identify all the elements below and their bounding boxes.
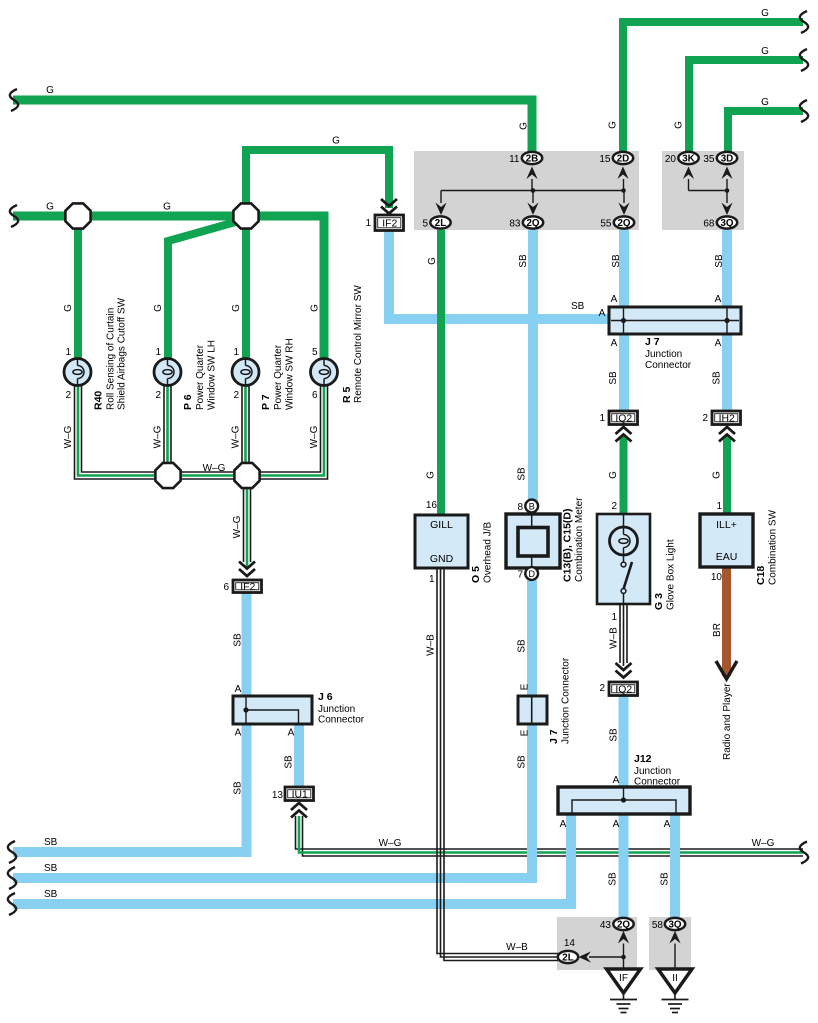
- svg-text:Junction: Junction: [645, 349, 682, 360]
- svg-text:1: 1: [233, 347, 239, 358]
- svg-text:Shield Airbags Cutoff SW: Shield Airbags Cutoff SW: [117, 297, 128, 410]
- svg-text:G: G: [332, 136, 340, 147]
- svg-text:Remote Control Mirror SW: Remote Control Mirror SW: [353, 285, 364, 403]
- svg-text:SB: SB: [712, 371, 723, 385]
- svg-text:Combination Meter: Combination Meter: [574, 497, 585, 582]
- svg-text:A: A: [613, 819, 620, 830]
- svg-text:Overhead J/B: Overhead J/B: [483, 522, 494, 583]
- svg-text:Junction: Junction: [318, 704, 355, 715]
- svg-text:B: B: [529, 502, 535, 512]
- svg-text:2: 2: [233, 390, 239, 401]
- svg-text:A: A: [611, 338, 618, 349]
- svg-text:2D: 2D: [617, 153, 630, 164]
- svg-text:SB: SB: [609, 728, 620, 742]
- svg-text:2B: 2B: [526, 153, 539, 164]
- svg-text:G: G: [761, 46, 769, 57]
- svg-text:SB: SB: [660, 872, 671, 886]
- svg-text:14: 14: [564, 938, 576, 949]
- svg-text:Connector: Connector: [634, 777, 681, 788]
- svg-text:O 5: O 5: [470, 566, 482, 583]
- svg-text:W–G: W–G: [752, 838, 775, 849]
- svg-text:83: 83: [509, 219, 521, 230]
- svg-text:8: 8: [517, 502, 523, 513]
- svg-text:G: G: [608, 121, 619, 129]
- svg-text:SB: SB: [608, 872, 619, 886]
- svg-text:A: A: [715, 294, 722, 305]
- svg-text:C18: C18: [755, 566, 767, 585]
- svg-text:SB: SB: [233, 633, 244, 647]
- svg-text:2: 2: [65, 390, 71, 401]
- svg-text:11: 11: [509, 154, 520, 165]
- svg-text:2Q: 2Q: [526, 218, 539, 229]
- svg-text:Power Quarter: Power Quarter: [195, 344, 206, 410]
- svg-text:IU1: IU1: [292, 790, 308, 801]
- svg-text:Connector: Connector: [318, 715, 365, 726]
- svg-text:3D: 3D: [721, 153, 734, 164]
- svg-text:EAU: EAU: [716, 551, 738, 563]
- svg-text:20: 20: [665, 154, 677, 165]
- svg-text:SB: SB: [611, 254, 622, 268]
- svg-text:R 5: R 5: [341, 387, 353, 404]
- svg-text:A: A: [560, 819, 567, 830]
- svg-text:Radio and Player: Radio and Player: [722, 683, 733, 760]
- svg-text:Glove Box Light: Glove Box Light: [666, 539, 677, 610]
- svg-text:W–G: W–G: [63, 425, 74, 448]
- svg-text:Combination SW: Combination SW: [768, 509, 779, 585]
- svg-text:SB: SB: [571, 301, 585, 312]
- svg-text:SB: SB: [517, 639, 528, 653]
- svg-text:W–G: W–G: [379, 838, 402, 849]
- svg-text:A: A: [715, 338, 722, 349]
- svg-text:35: 35: [703, 154, 715, 165]
- svg-text:G: G: [153, 304, 164, 312]
- svg-text:Roll Sensing of Curtain: Roll Sensing of Curtain: [106, 308, 117, 410]
- svg-text:A: A: [613, 775, 620, 786]
- svg-text:10: 10: [711, 572, 723, 583]
- svg-text:W–G: W–G: [231, 425, 242, 448]
- svg-text:II: II: [672, 973, 678, 984]
- svg-text:W–G: W–G: [203, 463, 226, 474]
- svg-text:1: 1: [155, 347, 161, 358]
- svg-text:A: A: [235, 684, 242, 695]
- svg-text:68: 68: [703, 219, 715, 230]
- svg-text:SB: SB: [714, 254, 725, 268]
- svg-text:C13(B), C15(D): C13(B), C15(D): [562, 508, 574, 582]
- svg-text:G: G: [63, 304, 74, 312]
- svg-text:15: 15: [599, 154, 611, 165]
- svg-text:SB: SB: [44, 889, 58, 900]
- svg-text:5: 5: [312, 347, 318, 358]
- svg-text:W–B: W–B: [426, 634, 437, 656]
- svg-text:IF: IF: [619, 973, 628, 984]
- svg-text:A: A: [599, 308, 606, 319]
- svg-text:Power Quarter: Power Quarter: [273, 344, 284, 410]
- svg-text:3Q: 3Q: [720, 218, 733, 229]
- svg-text:16: 16: [426, 500, 438, 511]
- svg-text:SB: SB: [517, 755, 528, 769]
- svg-text:SB: SB: [518, 254, 529, 268]
- svg-text:55: 55: [600, 219, 612, 230]
- svg-text:J12: J12: [634, 753, 652, 765]
- svg-text:Window SW RH: Window SW RH: [285, 338, 296, 410]
- svg-text:2: 2: [611, 501, 617, 512]
- svg-text:W–G: W–G: [153, 425, 164, 448]
- svg-text:D: D: [528, 569, 535, 579]
- svg-text:6: 6: [223, 582, 229, 593]
- svg-text:1: 1: [429, 574, 435, 585]
- svg-text:J 7: J 7: [548, 729, 560, 744]
- svg-text:5: 5: [422, 219, 428, 230]
- svg-text:Connector: Connector: [645, 360, 692, 371]
- svg-text:IF2: IF2: [240, 582, 255, 593]
- svg-text:GND: GND: [430, 553, 454, 565]
- svg-text:G: G: [712, 471, 723, 479]
- svg-text:G: G: [46, 202, 54, 213]
- svg-text:58: 58: [652, 920, 664, 931]
- svg-text:2: 2: [599, 683, 605, 694]
- svg-text:BR: BR: [712, 623, 723, 637]
- svg-text:A: A: [611, 294, 618, 305]
- svg-text:G: G: [427, 257, 438, 265]
- svg-text:IQ2: IQ2: [615, 414, 632, 425]
- svg-text:43: 43: [600, 920, 612, 931]
- svg-text:W–B: W–B: [506, 942, 528, 953]
- svg-text:E: E: [520, 729, 531, 736]
- svg-text:A: A: [664, 819, 671, 830]
- svg-text:IH2: IH2: [719, 414, 735, 425]
- svg-text:G 3: G 3: [653, 593, 665, 610]
- svg-text:J 7: J 7: [645, 336, 660, 348]
- svg-text:13: 13: [272, 790, 284, 801]
- svg-text:SB: SB: [233, 781, 244, 795]
- svg-text:P 7: P 7: [260, 394, 272, 410]
- svg-text:G: G: [426, 471, 437, 479]
- svg-text:W–G: W–G: [309, 425, 320, 448]
- svg-text:G: G: [608, 471, 619, 479]
- svg-text:3Q: 3Q: [668, 919, 681, 930]
- svg-text:1: 1: [599, 413, 605, 424]
- svg-text:E: E: [520, 683, 531, 690]
- svg-text:2Q: 2Q: [617, 218, 630, 229]
- svg-text:G: G: [46, 85, 54, 96]
- svg-text:J 6: J 6: [318, 691, 333, 703]
- svg-text:Junction: Junction: [634, 766, 671, 777]
- svg-text:P 6: P 6: [182, 394, 194, 410]
- svg-text:SB: SB: [608, 371, 619, 385]
- svg-text:G: G: [761, 97, 769, 108]
- svg-text:2L: 2L: [562, 952, 573, 963]
- svg-text:SB: SB: [44, 863, 58, 874]
- svg-text:G: G: [231, 304, 242, 312]
- svg-text:2: 2: [702, 413, 708, 424]
- svg-text:SB: SB: [517, 467, 528, 481]
- svg-text:2L: 2L: [435, 218, 446, 229]
- svg-text:1: 1: [716, 501, 722, 512]
- svg-text:G: G: [519, 122, 530, 130]
- svg-text:Window SW LH: Window SW LH: [207, 340, 218, 410]
- svg-text:SB: SB: [44, 837, 58, 848]
- svg-text:IQ2: IQ2: [615, 685, 632, 696]
- svg-text:W–B: W–B: [609, 627, 620, 649]
- svg-text:7: 7: [517, 570, 523, 581]
- svg-text:SB: SB: [284, 755, 295, 769]
- svg-text:1: 1: [65, 347, 71, 358]
- svg-text:1: 1: [365, 218, 371, 229]
- svg-text:G: G: [674, 121, 685, 129]
- svg-text:Junction Connector: Junction Connector: [561, 657, 572, 744]
- svg-text:ILL+: ILL+: [716, 519, 737, 531]
- svg-text:2Q: 2Q: [617, 919, 630, 930]
- svg-text:IF2: IF2: [382, 219, 397, 230]
- svg-text:6: 6: [312, 390, 318, 401]
- svg-text:2: 2: [155, 390, 161, 401]
- svg-text:A: A: [288, 728, 295, 739]
- svg-text:1: 1: [611, 612, 617, 623]
- svg-text:3K: 3K: [682, 153, 695, 164]
- svg-text:G: G: [761, 8, 769, 19]
- svg-text:GILL: GILL: [430, 519, 453, 531]
- svg-text:R40: R40: [93, 391, 105, 410]
- svg-text:A: A: [235, 728, 242, 739]
- svg-text:G: G: [310, 304, 321, 312]
- svg-text:G: G: [163, 202, 171, 213]
- svg-text:W–G: W–G: [232, 515, 243, 538]
